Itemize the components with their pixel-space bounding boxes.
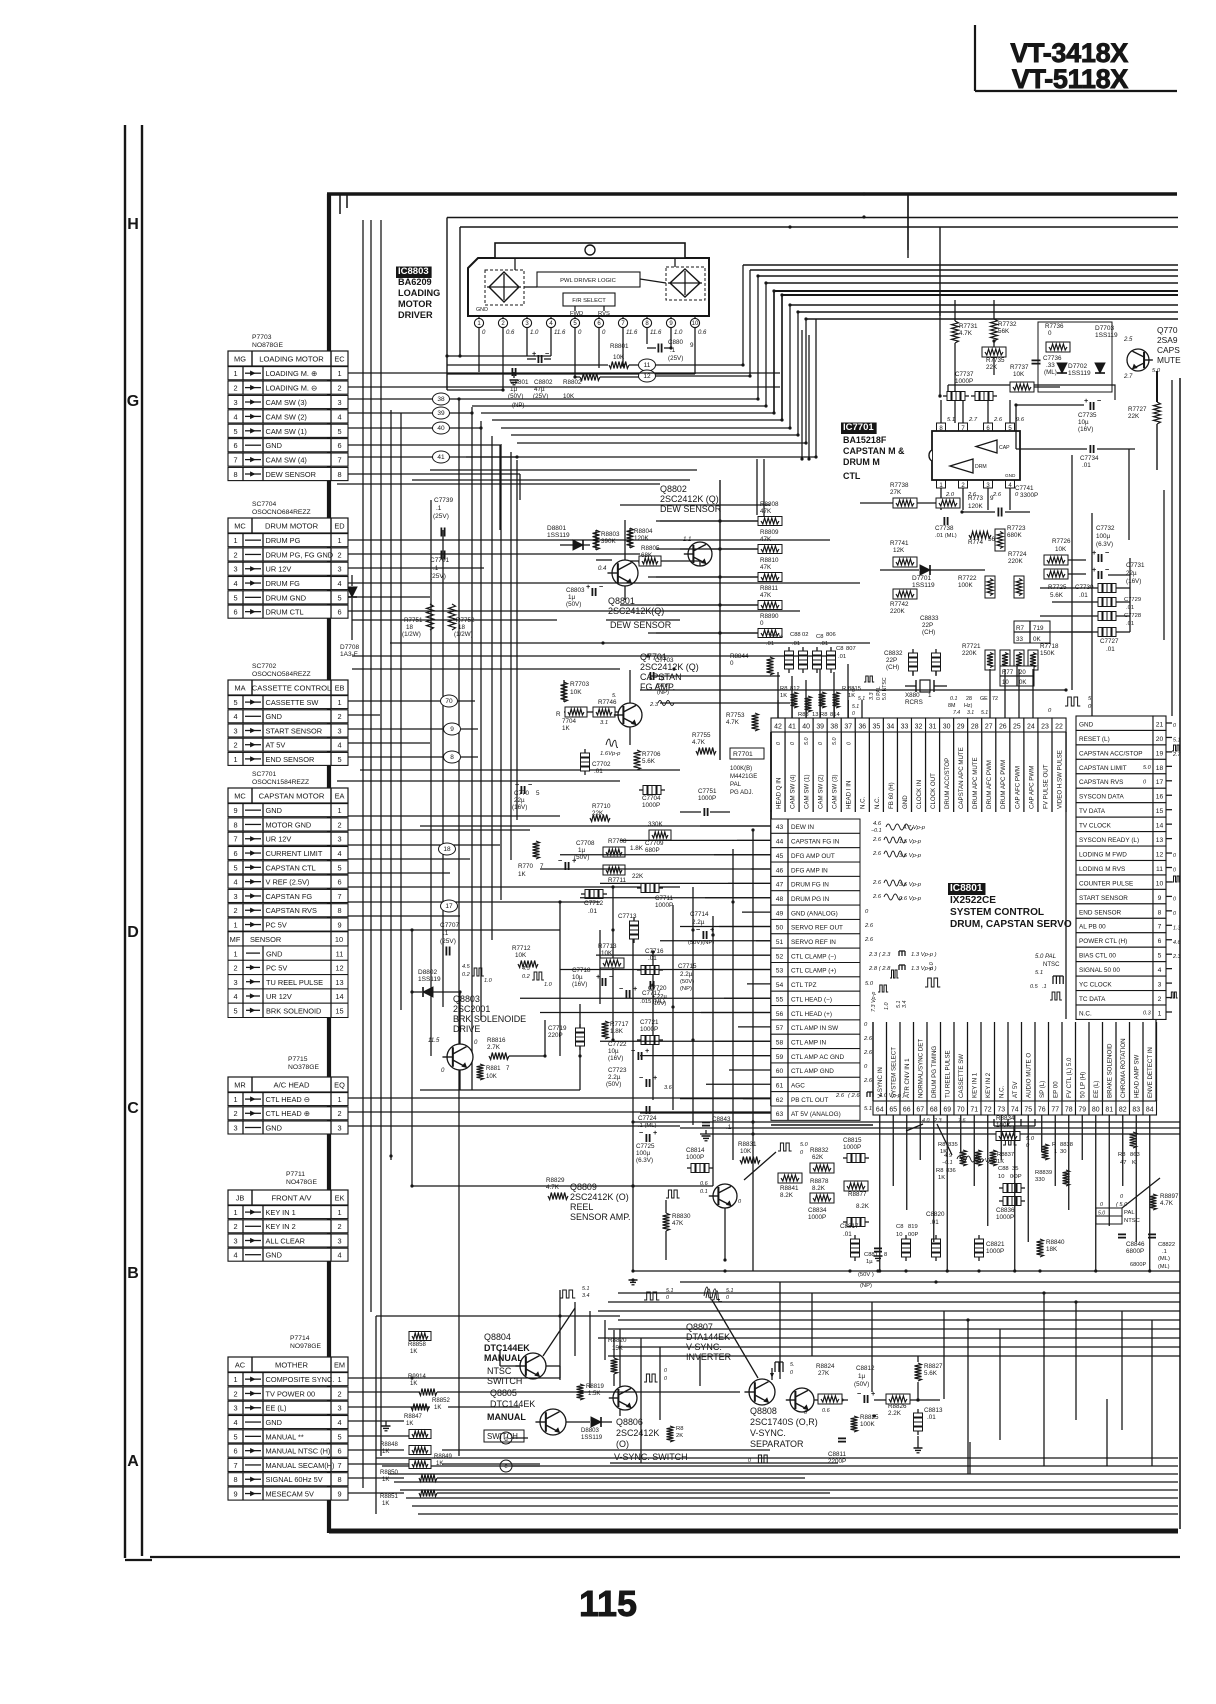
svg-text:AUDIO MUTE O: AUDIO MUTE O [1026, 1053, 1033, 1098]
svg-text:8: 8 [884, 1252, 887, 1258]
svg-text:5.6K: 5.6K [642, 758, 656, 765]
svg-text:TC DATA: TC DATA [1079, 996, 1106, 1003]
svg-text:27: 27 [985, 724, 993, 731]
svg-text:Hz): Hz) [964, 703, 973, 709]
svg-text:Q8804: Q8804 [484, 1332, 511, 1342]
svg-text:2.0: 2.0 [945, 492, 955, 498]
svg-text:1: 1 [337, 1095, 341, 1104]
svg-text:F/R SELECT: F/R SELECT [572, 298, 606, 304]
svg-text:D7702: D7702 [1068, 363, 1088, 370]
svg-text:(O): (O) [616, 1439, 629, 1449]
svg-text:0.6 Vp-p: 0.6 Vp-p [899, 896, 922, 902]
svg-text:20: 20 [1019, 670, 1026, 676]
svg-text:SERVO REF OUT: SERVO REF OUT [791, 925, 843, 932]
svg-text:R8832: R8832 [810, 1147, 829, 1154]
svg-text:1.3 Vp-p ): 1.3 Vp-p ) [911, 952, 937, 958]
svg-text:28: 28 [966, 696, 972, 702]
svg-text:61: 61 [776, 1083, 784, 1090]
svg-text:814: 814 [830, 712, 840, 718]
mute network box [1038, 322, 1112, 392]
svg-text:A: A [127, 1453, 139, 1470]
svg-text:C8: C8 [896, 1224, 903, 1230]
svg-text:10: 10 [692, 321, 699, 327]
svg-text:4: 4 [233, 712, 237, 721]
fan wires from nodes to vertical bus [348, 398, 433, 400]
svg-text:R8809: R8809 [760, 529, 779, 536]
wires to IC8801 left rows [700, 825, 771, 827]
svg-text:10K: 10K [570, 689, 582, 696]
svg-text:5: 5 [233, 593, 237, 602]
svg-text:( 2.6: ( 2.6 [848, 1093, 860, 1099]
svg-text:R8819: R8819 [586, 1384, 604, 1390]
svg-text:GND: GND [266, 441, 282, 450]
svg-text:R8827: R8827 [924, 1363, 943, 1370]
svg-text:(50V): (50V) [606, 1081, 621, 1088]
svg-text:680P: 680P [645, 847, 660, 854]
svg-text:(16V): (16V) [572, 981, 587, 988]
svg-text:1K: 1K [406, 1421, 413, 1427]
svg-text:6800P: 6800P [1126, 1248, 1144, 1255]
svg-text:R8803: R8803 [601, 531, 620, 538]
svg-text:DTA144EK: DTA144EK [686, 1332, 730, 1342]
svg-text:CTL HEAD (+): CTL HEAD (+) [791, 1011, 832, 1018]
IC8803 internal wires [524, 286, 537, 288]
svg-text:R7735: R7735 [986, 357, 1005, 364]
svg-text:68K: 68K [641, 552, 653, 559]
schematic left border (thick) [327, 194, 331, 1533]
svg-text:8: 8 [233, 1475, 237, 1484]
svg-text:−: − [1105, 565, 1109, 574]
small squarewave glyph [864, 676, 874, 682]
svg-text:Q8807: Q8807 [686, 1322, 713, 1332]
svg-text:1: 1 [233, 1095, 237, 1104]
svg-text:79: 79 [1078, 1107, 1086, 1114]
svg-text:2.6: 2.6 [993, 417, 1003, 423]
svg-text:C7702: C7702 [592, 761, 611, 768]
svg-text:2.2µ: 2.2µ [608, 1074, 621, 1081]
svg-text:.33: .33 [1046, 362, 1055, 369]
svg-text:AT 5V (ANALOG): AT 5V (ANALOG) [791, 1111, 841, 1118]
svg-text:2: 2 [337, 820, 341, 829]
svg-text:LODING M FWD: LODING M FWD [1079, 851, 1127, 858]
svg-text:C8836: C8836 [996, 1207, 1015, 1214]
IC8803 PWL DRIVER LOGIC box [537, 272, 640, 287]
svg-text:2SC1740S (O,R): 2SC1740S (O,R) [750, 1417, 818, 1427]
svg-text:1.0: 1.0 [884, 1003, 890, 1010]
squarewave with arrow to Q8809 [778, 1143, 792, 1151]
svg-text:SENSOR AMP.: SENSOR AMP. [570, 1212, 631, 1222]
capacitor C7702 feedthrough [581, 753, 590, 762]
svg-text:100K: 100K [996, 1122, 1011, 1129]
svg-text:EQ: EQ [334, 1081, 345, 1090]
svg-text:CAM SW (1): CAM SW (1) [266, 427, 307, 436]
mid horizontals under drum area [352, 619, 557, 621]
Q8804 wires [546, 1365, 560, 1367]
svg-text:12: 12 [1156, 851, 1164, 858]
svg-text:R8: R8 [936, 1168, 943, 1174]
svg-text:BRK SOLENOID: BRK SOLENOID [266, 1007, 321, 1016]
svg-text:CTL AMP IN SW: CTL AMP IN SW [791, 1025, 838, 1032]
svg-text:R8: R8 [780, 686, 787, 692]
svg-text:00P: 00P [908, 1232, 918, 1238]
svg-text:5.6K: 5.6K [924, 1370, 938, 1377]
diode D7708 [347, 587, 357, 597]
svg-text:C8803: C8803 [566, 587, 585, 594]
svg-text:1: 1 [337, 698, 341, 707]
svg-text:C770: C770 [514, 790, 529, 797]
svg-text:DRUM GND: DRUM GND [266, 593, 307, 602]
svg-text:23: 23 [1041, 724, 1049, 731]
capacitor C7705 22u [520, 786, 522, 794]
svg-text:1000P: 1000P [640, 1026, 658, 1033]
svg-text:R77: R77 [1002, 670, 1014, 676]
svg-text:C7716: C7716 [645, 948, 664, 955]
connector table SC7701 sensor rows [228, 946, 348, 960]
svg-text:47: 47 [1120, 1160, 1126, 1166]
svg-text:OSOCNO684REZZ: OSOCNO684REZZ [252, 509, 311, 516]
svg-text:R8841: R8841 [780, 1185, 799, 1192]
svg-text:32: 32 [915, 724, 923, 731]
svg-text:C7704: C7704 [642, 795, 661, 802]
svg-text:56K: 56K [998, 328, 1010, 335]
squarewave near drum pg timing [925, 978, 940, 987]
svg-text:−: − [631, 1046, 635, 1055]
svg-text:5.0 PAL: 5.0 PAL [1035, 954, 1056, 960]
wire corner top-left inner [339, 194, 341, 214]
svg-text:LODING M RVS: LODING M RVS [1079, 866, 1125, 873]
svg-text:9: 9 [337, 1490, 341, 1499]
svg-text:33: 33 [1016, 636, 1023, 643]
arrow to Q8807 [712, 1300, 758, 1378]
IC8801 name label [948, 883, 985, 895]
svg-text:02: 02 [802, 632, 808, 638]
svg-text:Q8806: Q8806 [616, 1417, 643, 1427]
svg-text:(50V): (50V) [680, 979, 694, 985]
svg-text:80: 80 [1092, 1107, 1100, 1114]
svg-text:R7727: R7727 [1128, 406, 1147, 413]
svg-text:1SS119: 1SS119 [1095, 332, 1118, 339]
svg-text:6: 6 [337, 1447, 341, 1456]
resistor R7739 120K [936, 498, 960, 508]
svg-text:G: G [127, 393, 139, 410]
capstan amp wires [563, 680, 565, 702]
transistor Q8808 [790, 1388, 814, 1412]
svg-text:10: 10 [335, 935, 343, 944]
svg-text:5.0: 5.0 [800, 1142, 809, 1148]
svg-text:812: 812 [790, 686, 800, 692]
svg-text:RVS: RVS [598, 311, 610, 317]
svg-text:.01: .01 [766, 641, 774, 647]
svg-text:.01: .01 [588, 908, 597, 915]
IC8801 bottom edge [771, 1124, 873, 1126]
svg-text:CLOCK IN: CLOCK IN [916, 780, 923, 809]
svg-text:C7711: C7711 [655, 895, 674, 902]
svg-text:5.0: 5.0 [865, 981, 874, 987]
svg-text:R8829: R8829 [546, 1177, 565, 1184]
svg-text:GND: GND [266, 712, 282, 721]
svg-text:74: 74 [1011, 1107, 1019, 1114]
svg-text:220K: 220K [1008, 558, 1023, 565]
svg-text:5.0: 5.0 [1143, 765, 1152, 771]
svg-text:R8837: R8837 [997, 1152, 1014, 1158]
resistor R7740 560K [969, 532, 991, 539]
IC8803 pins 1-10 [474, 318, 483, 327]
svg-text:2.6: 2.6 [872, 851, 882, 857]
svg-text:NO978GE: NO978GE [290, 1343, 322, 1350]
svg-text:50: 50 [776, 925, 784, 932]
svg-text:1K: 1K [410, 1381, 417, 1387]
svg-text:14: 14 [1156, 823, 1164, 830]
svg-text:EK: EK [335, 1194, 345, 1203]
svg-text:Q770: Q770 [1157, 325, 1178, 335]
svg-text:2.6: 2.6 [863, 1078, 873, 1084]
svg-text:5: 5 [337, 755, 341, 764]
svg-text:2SC2001: 2SC2001 [453, 1004, 490, 1014]
svg-text:10: 10 [896, 1232, 902, 1238]
diagonal pointer to PAL box [1122, 1178, 1160, 1208]
IC8803 pin wires down [478, 328, 480, 372]
svg-text:P7715: P7715 [288, 1056, 308, 1063]
svg-text:0: 0 [790, 742, 796, 745]
svg-text:BA15218F: BA15218F [843, 435, 887, 445]
svg-text:17: 17 [1156, 779, 1164, 786]
svg-text:C8: C8 [816, 634, 823, 640]
svg-text:819: 819 [908, 1224, 918, 1230]
svg-text:0.3: 0.3 [1143, 1011, 1152, 1017]
svg-text:10: 10 [1156, 880, 1164, 887]
svg-text:2.6: 2.6 [864, 923, 874, 929]
svg-text:+: + [633, 984, 637, 993]
svg-text:0: 0 [1173, 896, 1176, 902]
svg-text:81: 81 [1105, 1107, 1113, 1114]
svg-text:IC7701: IC7701 [843, 422, 874, 433]
svg-text:.01: .01 [648, 955, 657, 962]
svg-text:CTL: CTL [843, 471, 861, 481]
svg-text:57: 57 [776, 1025, 784, 1032]
svg-text:1.8K: 1.8K [630, 845, 644, 852]
svg-text:1.3: 1.3 [1173, 925, 1180, 931]
svg-text:0: 0 [1173, 723, 1176, 729]
svg-text:.1: .1 [436, 505, 442, 512]
svg-text:1µ: 1µ [568, 594, 575, 601]
wire P7715 rows to right [348, 1097, 810, 1099]
svg-text:5.1: 5.1 [1173, 737, 1180, 743]
svg-text:C8817: C8817 [840, 1223, 859, 1230]
svg-text:END SENSOR: END SENSOR [266, 755, 315, 764]
svg-text:1A3-F: 1A3-F [340, 651, 358, 658]
svg-text:B: B [127, 1265, 139, 1282]
svg-text:AT 5V: AT 5V [266, 741, 286, 750]
svg-text:PB CTL OUT: PB CTL OUT [791, 1097, 828, 1104]
svg-text:1.6Vp-p: 1.6Vp-p [600, 751, 621, 757]
svg-text:DRIVER: DRIVER [398, 310, 433, 320]
svg-text:6800P: 6800P [1130, 1262, 1146, 1268]
vsync area box left wall [375, 1316, 377, 1514]
svg-text:5.: 5. [790, 1362, 794, 1368]
svg-text:R8878: R8878 [810, 1178, 829, 1185]
svg-text:2: 2 [337, 1389, 341, 1398]
svg-text:35: 35 [873, 724, 881, 731]
svg-text:3.1: 3.1 [600, 720, 608, 726]
svg-text:EB: EB [335, 684, 345, 693]
svg-text:REEL: REEL [570, 1202, 593, 1212]
svg-text:M4421GE: M4421GE [730, 774, 757, 780]
svg-text:C88: C88 [998, 1166, 1009, 1172]
svg-text:PC 5V: PC 5V [266, 921, 287, 930]
svg-text:CAM SW (2): CAM SW (2) [266, 412, 307, 421]
svg-text:DFG AMP OUT: DFG AMP OUT [791, 853, 835, 860]
svg-text:R8: R8 [938, 1142, 945, 1148]
svg-text:3: 3 [233, 1236, 237, 1245]
feedthrough column wires [1040, 587, 1094, 589]
svg-text:IX2522CE: IX2522CE [950, 895, 996, 906]
svg-text:C8832: C8832 [884, 650, 903, 657]
svg-text:C7708: C7708 [576, 840, 595, 847]
svg-text:7.4: 7.4 [953, 710, 960, 716]
svg-text:R7721: R7721 [962, 643, 981, 650]
svg-text:1: 1 [928, 692, 932, 699]
svg-text:5.0: 5.0 [804, 738, 810, 745]
svg-text:5: 5 [337, 427, 341, 436]
svg-text:DRUM FG IN: DRUM FG IN [791, 882, 829, 889]
svg-text:N.C.: N.C. [874, 796, 881, 809]
svg-text:SC7704: SC7704 [252, 501, 277, 508]
svg-text:C7725: C7725 [636, 1143, 655, 1150]
svg-text:(CH): (CH) [922, 629, 935, 636]
svg-text:77: 77 [1051, 1107, 1059, 1114]
svg-text:X880: X880 [905, 692, 920, 699]
svg-text:UR 12V: UR 12V [266, 992, 292, 1001]
svg-text:22K: 22K [592, 810, 604, 817]
svg-text:11.6: 11.6 [554, 330, 566, 336]
svg-text:−: − [1105, 548, 1109, 557]
svg-text:1SS119: 1SS119 [547, 532, 570, 539]
svg-text:MC: MC [234, 522, 246, 531]
svg-text:3: 3 [1158, 982, 1162, 989]
svg-text:7.6: 7.6 [958, 1118, 965, 1124]
svg-text:−: − [545, 349, 549, 358]
svg-text:3: 3 [233, 398, 237, 407]
svg-text:BRK SOLENOIDE: BRK SOLENOIDE [453, 1014, 526, 1024]
IC8801 right table tick marks [1166, 722, 1172, 724]
svg-text:0.6: 0.6 [822, 1408, 831, 1414]
svg-text:C7724: C7724 [638, 1115, 657, 1122]
svg-text:R8816: R8816 [487, 1037, 506, 1044]
svg-text:70: 70 [445, 698, 453, 705]
C7735 loop wires [1016, 404, 1084, 406]
IC8803 F/R SELECT box [563, 293, 615, 306]
svg-text:EE (L): EE (L) [1093, 1081, 1100, 1098]
svg-text:55: 55 [776, 996, 784, 1003]
svg-text:R8: R8 [1118, 1152, 1125, 1158]
svg-text:0: 0 [730, 660, 734, 667]
svg-text:34: 34 [887, 724, 895, 731]
svg-text:6: 6 [337, 608, 341, 617]
svg-text:0: 0 [846, 742, 852, 745]
svg-text:−: − [639, 1073, 643, 1082]
resistor R7751 [427, 604, 434, 630]
svg-text:DRUM M: DRUM M [843, 457, 880, 467]
resistor R7746 47 [593, 707, 615, 717]
svg-text:14: 14 [335, 992, 343, 1001]
connector table P7711 FRONT A/V [228, 1190, 348, 1205]
svg-text:D7708: D7708 [340, 644, 360, 651]
svg-text:9: 9 [990, 495, 994, 502]
svg-text:12: 12 [335, 964, 343, 973]
vertical wire from top to IC7701 [939, 227, 941, 316]
svg-text:LOADING: LOADING [398, 288, 440, 298]
svg-text:44: 44 [776, 839, 784, 846]
svg-text:C7734: C7734 [1080, 455, 1099, 462]
svg-text:48: 48 [776, 896, 784, 903]
svg-text:BIAS CTL 00: BIAS CTL 00 [1079, 953, 1116, 960]
svg-text:SERVO REF IN: SERVO REF IN [791, 939, 836, 946]
svg-text:39: 39 [816, 724, 824, 731]
svg-text:54: 54 [776, 982, 784, 989]
svg-text:R7753: R7753 [726, 712, 745, 719]
svg-text:C7739: C7739 [434, 497, 454, 504]
svg-text:NO878GE: NO878GE [252, 342, 284, 349]
svg-text:7.3 Vp-p: 7.3 Vp-p [871, 992, 877, 1012]
svg-text:1SS119: 1SS119 [581, 1435, 603, 1441]
svg-text:CAM SW (4): CAM SW (4) [266, 456, 307, 465]
svg-text:22K: 22K [1128, 413, 1140, 420]
svg-text:CTL AMP IN: CTL AMP IN [791, 1039, 826, 1046]
svg-text:24: 24 [1027, 724, 1035, 731]
wires near R7719 [1050, 631, 1092, 633]
svg-text:EC: EC [334, 355, 345, 364]
svg-text:4: 4 [233, 579, 237, 588]
svg-text:CTL TPZ: CTL TPZ [791, 982, 817, 989]
svg-text:C: C [127, 1100, 139, 1117]
svg-text:53: 53 [776, 968, 784, 975]
svg-text:7: 7 [233, 456, 237, 465]
svg-text:70: 70 [957, 1107, 965, 1114]
svg-text:22: 22 [1055, 724, 1063, 731]
svg-text:+: + [532, 349, 536, 358]
svg-text:GND: GND [266, 1123, 282, 1132]
svg-text:0: 0 [776, 742, 782, 745]
svg-text:(50V ): (50V ) [858, 1272, 874, 1278]
svg-text:41: 41 [437, 454, 445, 461]
svg-text:51: 51 [776, 939, 784, 946]
svg-text:START SENSOR: START SENSOR [1079, 895, 1128, 902]
svg-text:DRUM, CAPSTAN SERVO: DRUM, CAPSTAN SERVO [950, 919, 1072, 930]
IC8801 left pin rows 43-63 [771, 819, 860, 833]
svg-text:NTSC: NTSC [487, 1366, 512, 1376]
svg-text:3.6: 3.6 [664, 1085, 673, 1091]
svg-text:CTL HEAD (−): CTL HEAD (−) [791, 996, 832, 1003]
svg-text:1: 1 [1158, 1010, 1162, 1017]
bottom bus group B [376, 1457, 1178, 1459]
svg-text:R8808: R8808 [760, 501, 779, 508]
svg-text:MF: MF [230, 935, 241, 944]
svg-text:(NP): (NP) [680, 986, 692, 992]
svg-text:0.6: 0.6 [506, 330, 515, 336]
IC8803 right motor bridge (dashed) [666, 267, 705, 300]
svg-text:78: 78 [1065, 1107, 1073, 1114]
svg-text:1: 1 [337, 536, 341, 545]
svg-text:18: 18 [458, 624, 465, 631]
transistor Q8802 right [688, 542, 712, 566]
svg-text:1: 1 [233, 921, 237, 930]
svg-text:.01: .01 [838, 654, 846, 660]
svg-text:CASSETTE SW: CASSETTE SW [958, 1054, 965, 1098]
svg-text:C7709: C7709 [645, 840, 664, 847]
svg-text:R7732: R7732 [998, 321, 1017, 328]
svg-text:MANUAL NTSC (H): MANUAL NTSC (H) [266, 1447, 331, 1456]
svg-text:ATR CNV IN 1: ATR CNV IN 1 [904, 1058, 911, 1098]
